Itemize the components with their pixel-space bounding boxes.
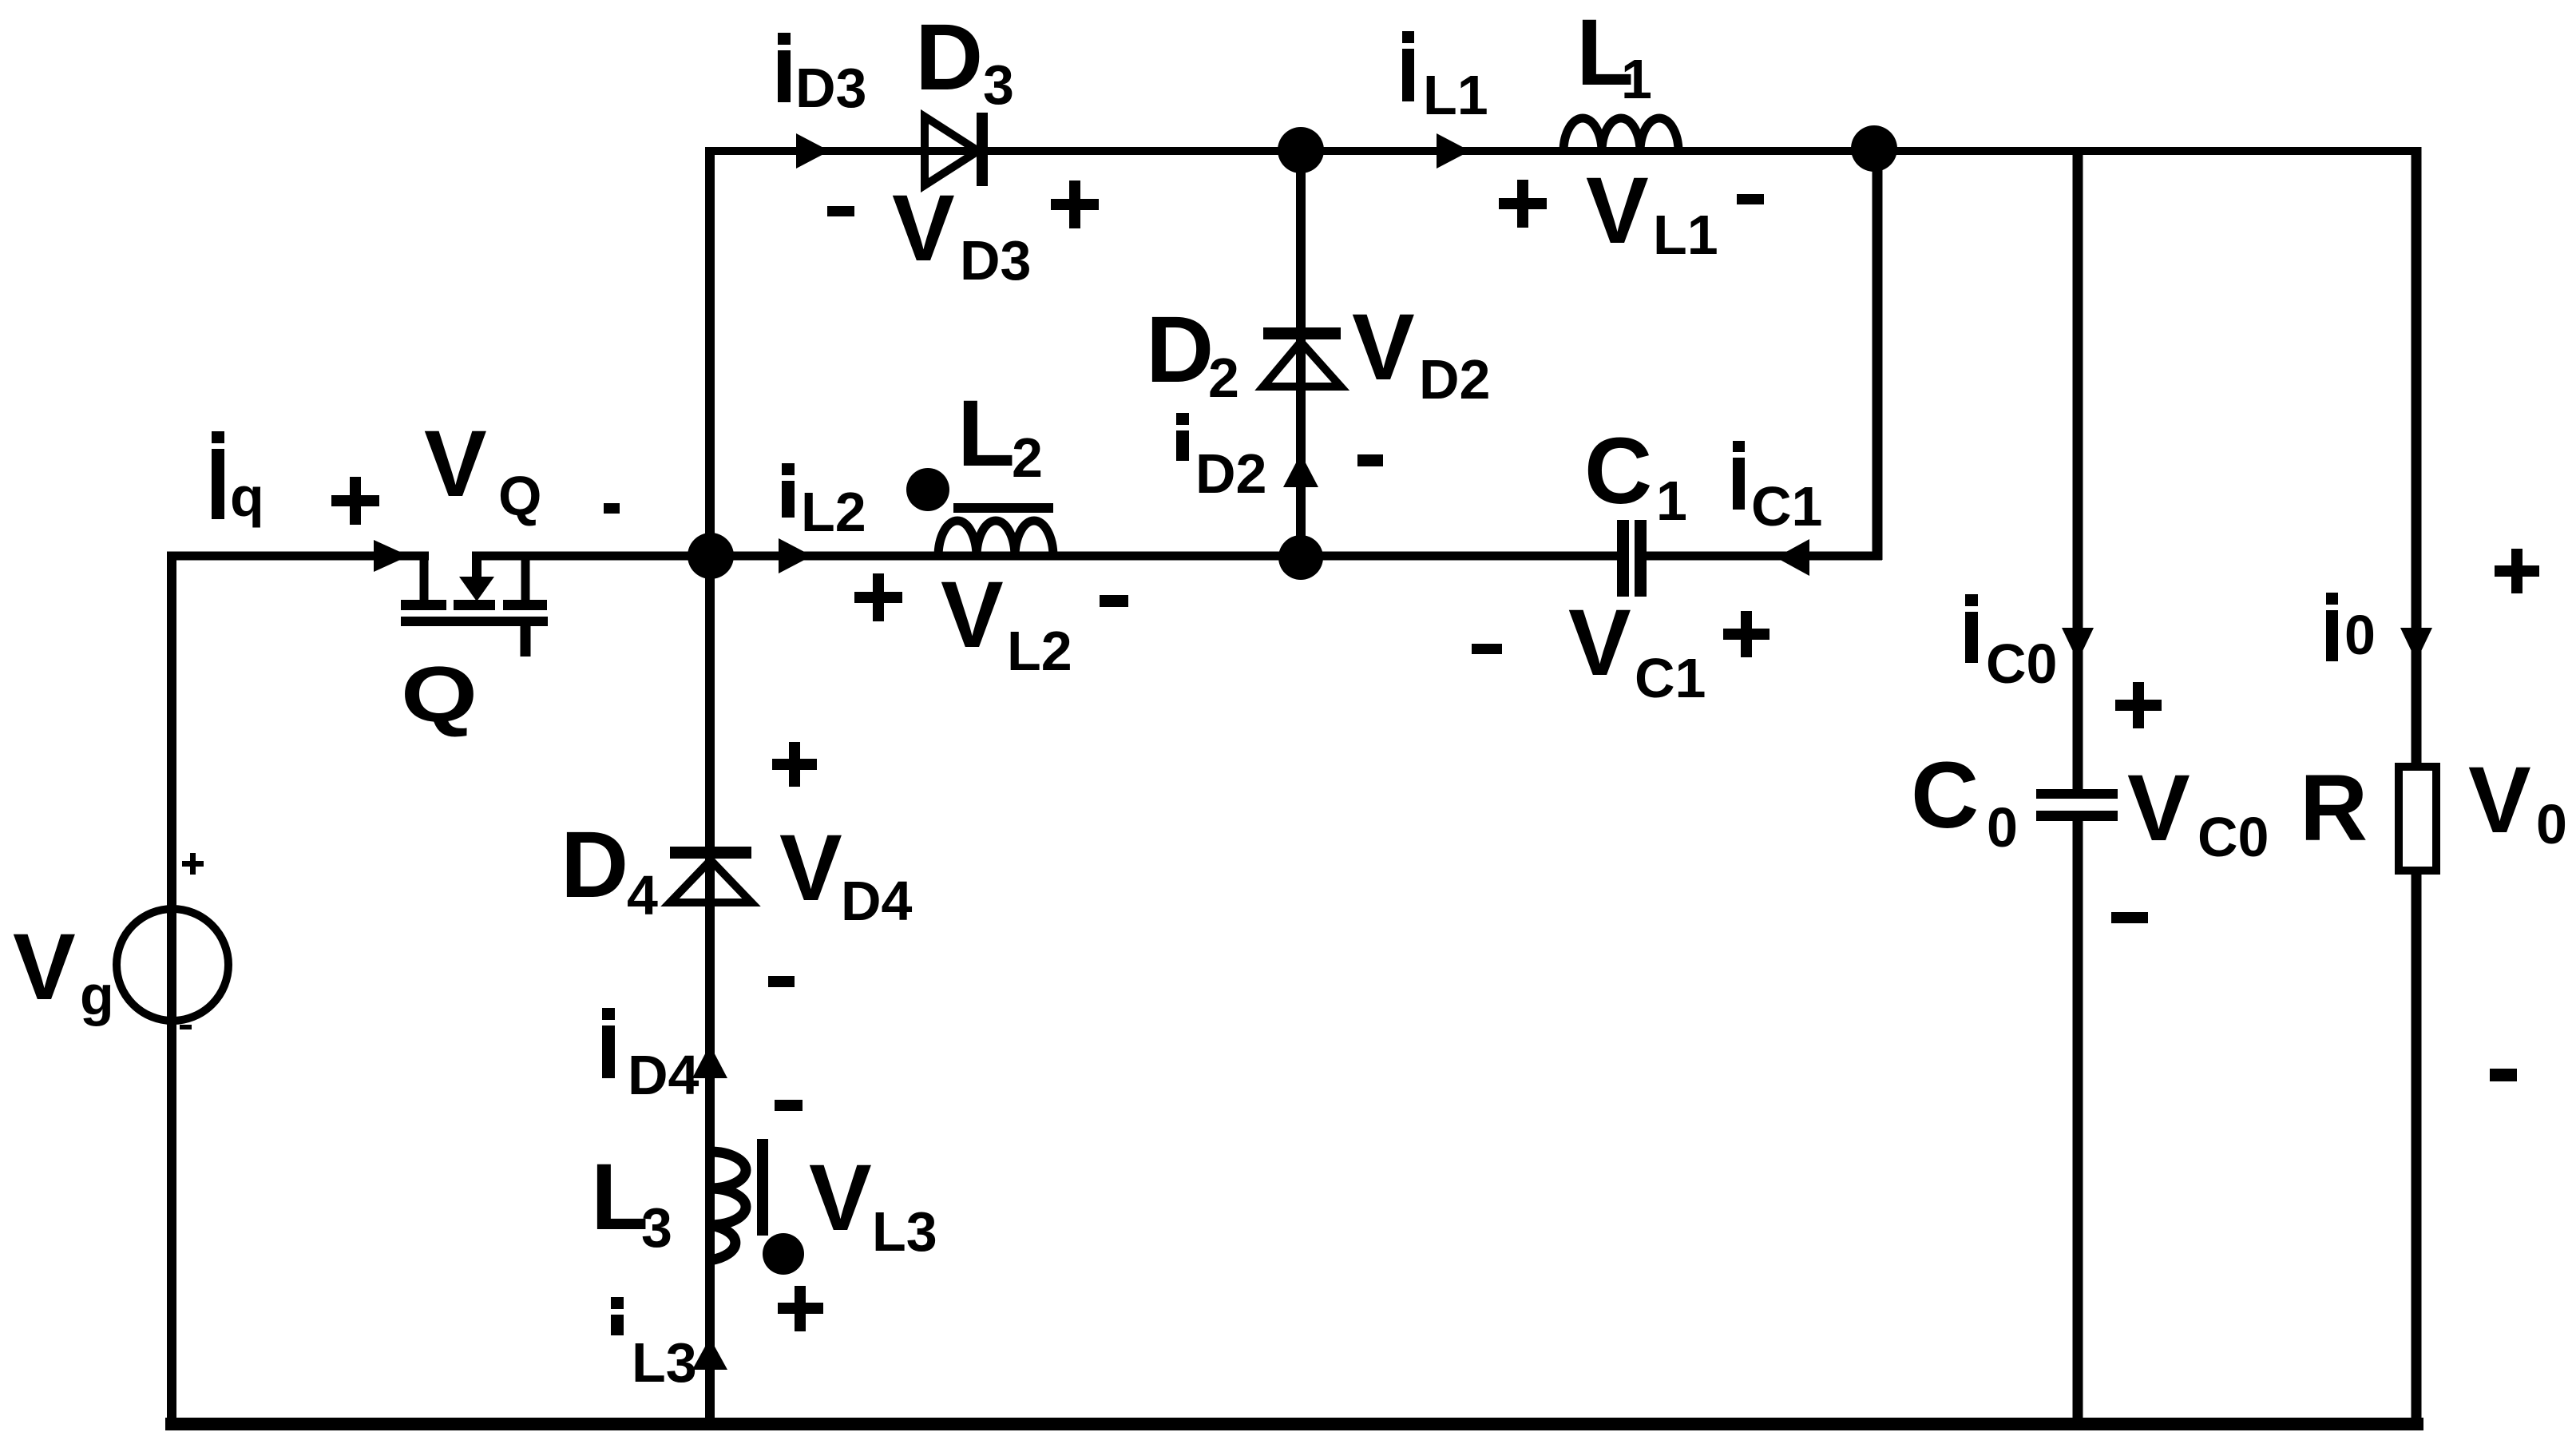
- svg-text:D: D: [561, 812, 628, 918]
- source Vg circle: [117, 909, 228, 1021]
- label i_L3: [611, 1297, 697, 1394]
- label i_L1: [1402, 31, 1488, 126]
- svg-text:D: D: [915, 5, 983, 110]
- node: junction dot at Q drain node: [688, 533, 734, 579]
- svg-text:C: C: [1911, 743, 1979, 848]
- svg-text:2: 2: [1012, 426, 1043, 489]
- arrow i_q: [374, 540, 409, 572]
- svg-text:L2: L2: [1007, 620, 1072, 682]
- svg-text:V: V: [779, 815, 842, 921]
- svg-text:L3: L3: [632, 1331, 697, 1394]
- svg-text:D2: D2: [1419, 348, 1490, 411]
- svg-text:C0: C0: [1986, 633, 2057, 695]
- capacitor C0: [2036, 789, 2118, 821]
- wire: C1 right branch vertical: [1873, 147, 1883, 560]
- svg-text:g: g: [80, 964, 114, 1026]
- transistor Q (MOSFET): [401, 556, 548, 657]
- label + (Vg polarity): [182, 861, 204, 867]
- label - (Vg polarity): [180, 1025, 192, 1029]
- wire: D2 branch vertical: [1296, 149, 1306, 558]
- arrow i_C0: [2062, 628, 2094, 661]
- arrow i_0: [2400, 628, 2432, 661]
- svg-text:D: D: [1146, 297, 1214, 403]
- svg-text:Q: Q: [401, 650, 478, 738]
- wire: mid rail from Q drain through L2 to C1 left plate: [472, 552, 1617, 561]
- label i_D3: [778, 33, 866, 119]
- svg-text:0: 0: [2344, 604, 2376, 666]
- label + (V_L2): [854, 592, 902, 603]
- svg-text:D2: D2: [1195, 442, 1266, 505]
- svg-text:Q: Q: [498, 465, 541, 527]
- svg-text:D3: D3: [795, 57, 866, 119]
- svg-text:V: V: [809, 1145, 872, 1251]
- arrow i_L3: [692, 1338, 727, 1370]
- label + (V_Q): [331, 495, 379, 506]
- label - (V_Q): [604, 503, 620, 514]
- svg-text:V: V: [941, 562, 1004, 668]
- label - (V_C1): [1472, 644, 1502, 654]
- diode D2: [1263, 327, 1341, 387]
- svg-text:2: 2: [1208, 347, 1239, 409]
- svg-text:L1: L1: [1653, 204, 1718, 266]
- label + (V_0): [2495, 565, 2539, 577]
- diode D3: [925, 113, 988, 186]
- svg-text:D4: D4: [628, 1044, 699, 1106]
- label i_0: [2326, 593, 2376, 666]
- svg-text:V: V: [424, 411, 487, 517]
- label - (V_L2): [1100, 595, 1128, 607]
- wire: left branch vertical through D4 and L3: [705, 147, 715, 1429]
- svg-text:V: V: [2468, 748, 2531, 853]
- wire: C0 branch upper segment: [2073, 148, 2083, 791]
- wire: bottom rail: [165, 1418, 2423, 1430]
- label i_q: [212, 431, 264, 528]
- svg-text:4: 4: [627, 864, 658, 926]
- inductor L1: [1563, 118, 1678, 152]
- label + (V_L3): [778, 1303, 823, 1314]
- svg-text:D3: D3: [960, 229, 1031, 292]
- svg-text:C0: C0: [2198, 806, 2269, 868]
- svg-text:3: 3: [983, 54, 1014, 116]
- svg-text:L: L: [957, 381, 1015, 486]
- svg-text:C1: C1: [1751, 475, 1822, 538]
- label i_D4: [602, 1008, 699, 1106]
- label - (V_D3): [827, 206, 854, 216]
- node: junction dot top of D2 branch: [1278, 127, 1324, 173]
- arrow i_L2: [779, 538, 812, 573]
- label i_C0: [1965, 594, 2057, 695]
- wire: input rail from Vg corner to Q source: [167, 552, 429, 561]
- arrow i_D2: [1283, 454, 1318, 487]
- label + (V_L1): [1499, 198, 1547, 209]
- svg-text:V: V: [1568, 590, 1631, 696]
- svg-text:3: 3: [641, 1196, 672, 1259]
- label - (V_0): [2490, 1069, 2517, 1081]
- inductor L2: [906, 468, 1053, 557]
- svg-text:R: R: [2300, 756, 2368, 861]
- arrow i_L1: [1437, 133, 1470, 169]
- label i_D2: [1176, 413, 1266, 505]
- wire: left vertical through Vg: [167, 552, 176, 1429]
- svg-text:0: 0: [2536, 793, 2567, 855]
- wire: mid rail from C1 right plate to right corner: [1647, 552, 1882, 561]
- svg-text:1: 1: [1656, 470, 1687, 532]
- svg-text:D4: D4: [841, 870, 913, 932]
- svg-text:L3: L3: [872, 1200, 937, 1263]
- label + (V_C1): [1723, 629, 1770, 640]
- wire: right vertical upper segment: [2412, 147, 2422, 771]
- svg-text:0: 0: [1987, 796, 2018, 859]
- capacitor C1: [1617, 520, 1647, 597]
- label i_C1: [1733, 441, 1822, 538]
- arrow i_D4: [692, 1045, 727, 1078]
- arrow i_C1: [1776, 539, 1809, 576]
- svg-text:1: 1: [1621, 48, 1652, 110]
- label - (V_C0): [2111, 912, 2148, 923]
- svg-text:V: V: [13, 914, 76, 1020]
- label + (V_C0): [2115, 700, 2162, 711]
- wire: C0 branch lower segment: [2073, 820, 2083, 1429]
- label - (V_D4): [768, 976, 795, 987]
- label + (V_D3): [1051, 199, 1099, 210]
- resistor R: [2399, 767, 2436, 871]
- label + (V_D4): [772, 759, 817, 770]
- node: junction dot bottom of D2 branch: [1278, 535, 1323, 580]
- node: junction dot right of L1: [1851, 125, 1897, 172]
- label - (V_L1): [1737, 194, 1764, 204]
- svg-text:V: V: [1586, 158, 1649, 264]
- inductor L3: [710, 1139, 804, 1275]
- wire: right vertical lower segment: [2412, 867, 2422, 1429]
- diode D4: [670, 847, 751, 902]
- svg-text:L2: L2: [801, 481, 866, 543]
- svg-text:V: V: [1352, 295, 1415, 400]
- wire: top rail: [706, 147, 2421, 155]
- svg-text:q: q: [230, 466, 264, 528]
- label - (V_D2 bottom): [1357, 454, 1383, 466]
- svg-text:V: V: [2127, 756, 2190, 861]
- svg-text:C1: C1: [1635, 647, 1706, 709]
- svg-text:L1: L1: [1423, 64, 1488, 126]
- label - (V_L3 top): [775, 1100, 803, 1111]
- svg-text:C: C: [1584, 419, 1652, 524]
- arrow i_D3: [796, 133, 830, 169]
- svg-text:L: L: [591, 1144, 648, 1250]
- svg-text:V: V: [892, 176, 955, 281]
- label i_L2: [782, 463, 866, 543]
